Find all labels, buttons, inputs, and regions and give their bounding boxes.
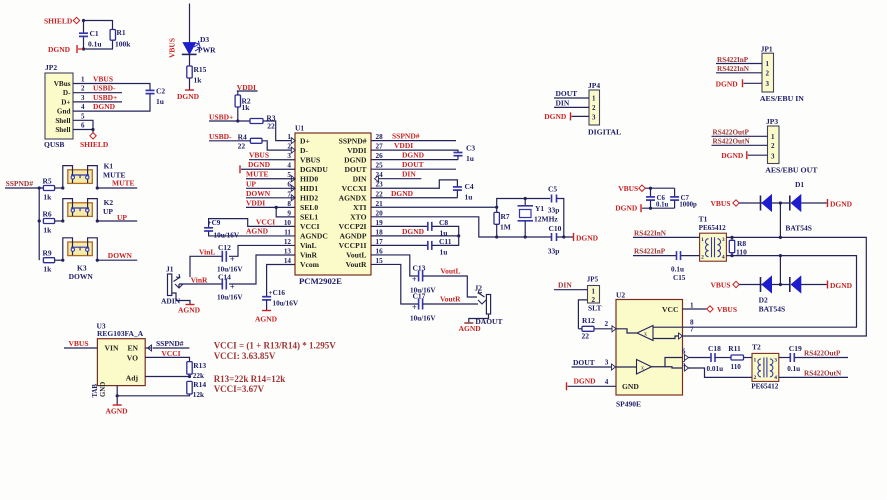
svg-text:1u: 1u (156, 97, 164, 106)
svg-text:K2: K2 (104, 198, 114, 207)
svg-text:DOUT: DOUT (345, 165, 367, 174)
svg-text:3: 3 (81, 94, 85, 102)
svg-text:0.1u: 0.1u (88, 40, 102, 49)
svg-text:3: 3 (592, 114, 596, 122)
svg-text:SHIELD: SHIELD (80, 140, 109, 149)
svg-text:XTO: XTO (350, 213, 366, 222)
svg-text:VDDI: VDDI (394, 141, 413, 150)
svg-text:Shell: Shell (55, 126, 70, 134)
svg-text:RS422InP: RS422InP (634, 248, 666, 256)
svg-text:C13: C13 (413, 264, 426, 273)
svg-text:MUTE: MUTE (112, 179, 135, 188)
svg-text:110: 110 (731, 363, 742, 371)
svg-text:0.1u: 0.1u (656, 201, 668, 208)
svg-text:VBUS: VBUS (717, 305, 737, 314)
svg-text:DGND: DGND (391, 189, 414, 198)
svg-text:+C9: +C9 (208, 219, 221, 227)
svg-text:VoutL: VoutL (440, 267, 460, 276)
svg-text:VCC: VCC (662, 305, 678, 314)
svg-text:3: 3 (774, 357, 777, 363)
svg-text:21: 21 (376, 200, 384, 208)
svg-text:DGNDU: DGNDU (300, 165, 328, 174)
svg-text:VCCI=3.67V: VCCI=3.67V (214, 384, 265, 394)
svg-text:RS422InN: RS422InN (634, 230, 667, 238)
svg-text:VBUS: VBUS (93, 75, 113, 84)
svg-text:15: 15 (376, 257, 384, 265)
svg-text:ADIN: ADIN (161, 297, 181, 306)
svg-text:22k: 22k (193, 372, 204, 380)
svg-text:RS422OutN: RS422OutN (804, 370, 842, 378)
svg-text:R14: R14 (193, 380, 206, 389)
svg-text:D3: D3 (200, 35, 209, 44)
svg-text:DGND: DGND (177, 92, 200, 101)
svg-text:+C16: +C16 (269, 289, 286, 297)
svg-text:BAT54S: BAT54S (759, 305, 786, 314)
svg-text:DOUT: DOUT (573, 358, 595, 367)
svg-text:PE65412: PE65412 (699, 224, 727, 232)
svg-text:2: 2 (754, 375, 757, 381)
svg-text:SLT: SLT (588, 304, 602, 313)
svg-text:C10: C10 (549, 224, 562, 233)
svg-text:VCCI: VCCI (256, 217, 275, 226)
svg-text:VoutR: VoutR (440, 295, 461, 304)
svg-text:1: 1 (81, 76, 85, 84)
svg-text:VinR: VinR (191, 275, 208, 284)
svg-text:C12: C12 (218, 243, 231, 252)
svg-text:VinL: VinL (199, 247, 215, 256)
svg-text:DIGITAL: DIGITAL (588, 128, 621, 137)
svg-text:USBD-: USBD- (209, 132, 232, 141)
svg-text:7: 7 (690, 326, 694, 334)
svg-text:Y1: Y1 (535, 204, 544, 213)
svg-text:VoutR: VoutR (346, 260, 367, 269)
svg-text:VDDI: VDDI (246, 198, 265, 207)
svg-text:10u/16V: 10u/16V (410, 315, 436, 323)
svg-text:USBD+: USBD+ (209, 112, 233, 121)
svg-text:20: 20 (376, 209, 384, 217)
svg-text:D+: D+ (61, 98, 70, 106)
svg-text:4: 4 (774, 375, 777, 381)
svg-text:1: 1 (701, 237, 704, 243)
svg-text:SSPND#: SSPND# (392, 132, 420, 141)
svg-text:28: 28 (376, 133, 384, 141)
svg-text:USBD+: USBD+ (93, 93, 117, 102)
svg-text:VCCP1I: VCCP1I (339, 241, 367, 250)
svg-text:1: 1 (592, 288, 596, 296)
svg-text:1u: 1u (465, 193, 473, 202)
svg-text:VDDI: VDDI (237, 83, 256, 92)
svg-text:10u/16V: 10u/16V (273, 300, 299, 308)
svg-text:4: 4 (722, 255, 725, 261)
svg-text:R12: R12 (582, 316, 595, 325)
svg-text:PE65412: PE65412 (751, 383, 779, 391)
svg-text:RS422InP: RS422InP (717, 56, 749, 64)
svg-text:DGND: DGND (544, 112, 567, 121)
svg-text:D1: D1 (795, 180, 804, 189)
svg-text:RS422InN: RS422InN (717, 65, 750, 73)
svg-text:AGND: AGND (178, 306, 201, 315)
svg-text:C4: C4 (465, 182, 474, 191)
svg-text:1: 1 (287, 133, 291, 141)
svg-text:AGNDP: AGNDP (340, 232, 367, 241)
svg-text:1k: 1k (43, 226, 52, 235)
svg-text:RS422OutN: RS422OutN (713, 138, 751, 146)
svg-text:UP: UP (117, 213, 127, 222)
svg-text:1k: 1k (43, 265, 52, 274)
svg-text:JP4: JP4 (588, 81, 600, 90)
svg-text:D2: D2 (759, 296, 768, 305)
svg-text:3: 3 (605, 359, 609, 367)
svg-text:JP2: JP2 (45, 63, 57, 72)
svg-text:1: 1 (592, 95, 596, 103)
svg-text:JP1: JP1 (761, 45, 773, 54)
svg-text:VDDI: VDDI (347, 146, 366, 155)
svg-text:33p: 33p (548, 206, 560, 215)
svg-text:VO: VO (127, 353, 138, 362)
svg-text:DGND: DGND (576, 234, 599, 243)
svg-text:4: 4 (605, 378, 609, 386)
svg-text:DIN: DIN (353, 174, 367, 183)
svg-text:3: 3 (722, 237, 725, 243)
svg-text:VBUS: VBUS (168, 38, 177, 58)
svg-text:1: 1 (766, 60, 770, 68)
svg-text:AES/EBU OUT: AES/EBU OUT (765, 166, 818, 175)
svg-text:12: 12 (284, 238, 292, 246)
svg-text:100k: 100k (115, 40, 131, 49)
svg-text:12MHz: 12MHz (534, 215, 558, 224)
svg-text:1000p: 1000p (679, 201, 697, 208)
svg-text:USBD-: USBD- (93, 84, 116, 93)
svg-text:AGNDX: AGNDX (339, 193, 367, 202)
svg-text:C8: C8 (439, 218, 448, 227)
svg-text:VBUS: VBUS (711, 199, 731, 208)
svg-text:UP: UP (246, 179, 256, 188)
svg-text:0.01u: 0.01u (707, 365, 724, 373)
svg-text:4: 4 (81, 103, 85, 111)
svg-text:C2: C2 (156, 87, 165, 96)
svg-text:DGND: DGND (830, 281, 853, 290)
svg-text:1: 1 (754, 357, 757, 363)
svg-text:DIN: DIN (558, 280, 572, 289)
svg-text:VinR: VinR (300, 251, 318, 260)
svg-text:R15: R15 (194, 65, 207, 74)
svg-text:4: 4 (287, 162, 291, 170)
svg-text:5: 5 (81, 112, 85, 120)
svg-text:2: 2 (771, 142, 775, 150)
svg-text:VBUS: VBUS (618, 184, 638, 193)
svg-text:R11: R11 (728, 344, 741, 353)
svg-text:2: 2 (701, 255, 704, 261)
svg-text:5: 5 (287, 171, 291, 179)
svg-text:C11: C11 (439, 237, 452, 246)
svg-text:12k: 12k (193, 391, 204, 399)
svg-text:19: 19 (376, 219, 384, 227)
svg-text:2: 2 (81, 85, 85, 93)
svg-text:SEL0: SEL0 (300, 203, 318, 212)
svg-text:C19: C19 (789, 344, 802, 353)
svg-text:2: 2 (605, 320, 609, 328)
svg-text:DGND: DGND (248, 160, 271, 169)
svg-text:EN: EN (127, 344, 138, 353)
svg-text:T1: T1 (699, 215, 708, 224)
svg-text:DGND: DGND (830, 199, 853, 208)
svg-text:DGND: DGND (402, 151, 425, 160)
svg-text:REG103FA_A: REG103FA_A (97, 329, 144, 338)
svg-text:R9: R9 (43, 249, 52, 258)
svg-text:VCCI: VCCI (300, 222, 319, 231)
svg-text:22: 22 (376, 190, 384, 198)
svg-text:VinL: VinL (300, 241, 317, 250)
svg-text:1: 1 (690, 302, 694, 310)
svg-text:R13=22k R14=12k: R13=22k R14=12k (214, 374, 286, 384)
svg-text:C14: C14 (218, 273, 231, 282)
svg-text:TAB: TAB (92, 384, 99, 398)
svg-text:J1: J1 (166, 265, 174, 274)
svg-text:PWR: PWR (198, 46, 216, 55)
svg-text:1u: 1u (440, 248, 448, 257)
svg-text:R1: R1 (117, 28, 126, 37)
svg-text:VBUS: VBUS (69, 339, 89, 348)
svg-text:U1: U1 (295, 124, 304, 133)
svg-text:DGND: DGND (402, 227, 425, 236)
svg-text:R6: R6 (43, 210, 52, 219)
svg-text:27: 27 (376, 143, 384, 151)
svg-text:VBUS: VBUS (300, 155, 320, 164)
svg-text:BAT54S: BAT54S (785, 224, 812, 233)
svg-text:UP: UP (103, 207, 113, 216)
svg-text:AGND: AGND (106, 407, 129, 416)
svg-text:16: 16 (376, 247, 384, 255)
svg-text:K1: K1 (104, 162, 114, 171)
svg-text:DGND: DGND (716, 79, 739, 88)
svg-text:2: 2 (287, 143, 291, 151)
svg-text:Shell: Shell (55, 117, 70, 125)
svg-text:XTI: XTI (353, 203, 367, 212)
svg-text:VBUS: VBUS (711, 281, 731, 290)
svg-text:DGND: DGND (48, 45, 71, 54)
svg-text:U2: U2 (616, 291, 625, 300)
svg-text:3: 3 (287, 152, 291, 160)
svg-text:HID0: HID0 (300, 174, 318, 183)
svg-text:Adj: Adj (126, 373, 139, 382)
svg-text:DGND: DGND (615, 203, 638, 212)
svg-text:x: x (644, 332, 647, 338)
svg-text:26: 26 (376, 152, 384, 160)
svg-text:33p: 33p (548, 247, 560, 256)
svg-text:8: 8 (287, 200, 291, 208)
svg-text:GND: GND (100, 382, 107, 397)
svg-text:10u/16V: 10u/16V (217, 294, 243, 302)
svg-text:6: 6 (287, 181, 291, 189)
svg-text:+: + (230, 255, 235, 264)
svg-text:R4: R4 (238, 132, 247, 141)
svg-text:1k: 1k (194, 76, 203, 85)
svg-text:1: 1 (771, 133, 775, 141)
svg-text:C3: C3 (466, 144, 475, 153)
svg-text:13: 13 (284, 247, 292, 255)
svg-text:18: 18 (376, 228, 384, 236)
svg-text:9: 9 (287, 209, 291, 217)
svg-text:SHIELD: SHIELD (44, 16, 73, 25)
svg-text:25: 25 (376, 162, 384, 170)
svg-text:C17: C17 (413, 292, 426, 301)
svg-text:VoutL: VoutL (346, 251, 366, 260)
svg-text:DIN: DIN (556, 99, 570, 108)
svg-text:SSPND#: SSPND# (156, 339, 184, 348)
svg-text:1u: 1u (466, 154, 474, 163)
svg-text:C15: C15 (673, 274, 686, 282)
svg-text:T2: T2 (752, 343, 761, 352)
svg-text:1k: 1k (43, 193, 52, 202)
svg-text:22: 22 (582, 332, 590, 341)
svg-text:DIN: DIN (402, 170, 416, 179)
svg-text:DOWN: DOWN (246, 189, 271, 198)
svg-text:2: 2 (592, 104, 596, 112)
svg-text:VCCI: VCCI (161, 349, 180, 358)
svg-text:22: 22 (267, 122, 275, 131)
svg-text:DGND: DGND (574, 377, 597, 386)
svg-text:14: 14 (284, 257, 292, 265)
svg-text:23: 23 (376, 181, 384, 189)
svg-text:0.1u: 0.1u (671, 266, 684, 274)
svg-text:D-: D- (300, 146, 308, 155)
svg-text:6: 6 (81, 122, 85, 130)
svg-text:6: 6 (682, 348, 686, 355)
svg-text:VIN: VIN (105, 344, 119, 353)
svg-text:PCM2902E: PCM2902E (299, 276, 342, 286)
svg-text:7: 7 (287, 190, 291, 198)
svg-text:+: + (412, 275, 417, 284)
svg-text:RS422OutP: RS422OutP (804, 350, 841, 358)
svg-text:VCCI: 3.63.85V: VCCI: 3.63.85V (214, 351, 276, 361)
svg-text:1k: 1k (242, 103, 251, 112)
svg-text:SEL1: SEL1 (300, 213, 318, 222)
svg-text:22: 22 (238, 142, 246, 151)
svg-text:VBus: VBus (54, 80, 71, 88)
svg-text:Gnd: Gnd (57, 108, 71, 116)
svg-text:HID1: HID1 (300, 184, 318, 193)
svg-text:C5: C5 (548, 185, 557, 194)
svg-text:3: 3 (766, 80, 770, 88)
svg-text:2: 2 (766, 69, 770, 77)
svg-text:DOWN: DOWN (108, 251, 133, 260)
svg-text:DGND: DGND (93, 102, 116, 111)
svg-text:QUSB: QUSB (44, 140, 64, 149)
svg-text:JP3: JP3 (766, 117, 778, 126)
svg-text:3: 3 (771, 152, 775, 160)
svg-text:C18: C18 (708, 344, 721, 353)
svg-text:JP5: JP5 (587, 275, 599, 283)
svg-text:AGND: AGND (255, 315, 278, 324)
svg-text:VCCP2I: VCCP2I (339, 222, 367, 231)
svg-text:HID2: HID2 (300, 193, 318, 202)
svg-text:VBUS: VBUS (249, 151, 269, 160)
svg-text:DOUT: DOUT (556, 89, 578, 98)
svg-text:C1: C1 (90, 29, 99, 38)
svg-text:17: 17 (376, 238, 384, 246)
svg-text:11: 11 (284, 228, 291, 236)
svg-text:VCCXI: VCCXI (342, 184, 367, 193)
svg-text:R13: R13 (193, 361, 206, 370)
svg-text:DOUT: DOUT (402, 160, 424, 169)
svg-text:DGND: DGND (344, 155, 367, 164)
svg-text:SSPND#: SSPND# (6, 179, 34, 188)
svg-text:AGND: AGND (246, 227, 269, 236)
svg-text:MUTE: MUTE (246, 170, 269, 179)
svg-text:DGND: DGND (721, 151, 744, 160)
svg-text:SP490E: SP490E (616, 400, 641, 409)
svg-text:0.1u: 0.1u (787, 365, 800, 373)
svg-text:SSPND#: SSPND# (339, 136, 367, 145)
svg-text:AGND: AGND (459, 324, 482, 333)
svg-text:RS422OutP: RS422OutP (713, 129, 750, 137)
svg-text:Vcom: Vcom (300, 260, 320, 269)
svg-text:1M: 1M (500, 223, 511, 232)
svg-text:D+: D+ (300, 136, 310, 145)
svg-text:GND: GND (622, 382, 639, 391)
svg-text:AES/EBU IN: AES/EBU IN (760, 94, 804, 103)
svg-text:DOWN: DOWN (69, 272, 94, 281)
svg-text:+: + (412, 303, 417, 312)
svg-text:AGNDC: AGNDC (300, 232, 328, 241)
svg-text:VCCI = (1 + R13/R14) * 1.295V: VCCI = (1 + R13/R14) * 1.295V (214, 340, 337, 350)
svg-text:+: + (230, 283, 235, 292)
svg-text:D-: D- (63, 89, 71, 97)
svg-text:10: 10 (284, 219, 292, 227)
svg-text:x: x (641, 365, 644, 371)
svg-text:R7: R7 (501, 212, 510, 221)
svg-text:110: 110 (736, 248, 747, 257)
svg-text:R5: R5 (43, 177, 52, 186)
